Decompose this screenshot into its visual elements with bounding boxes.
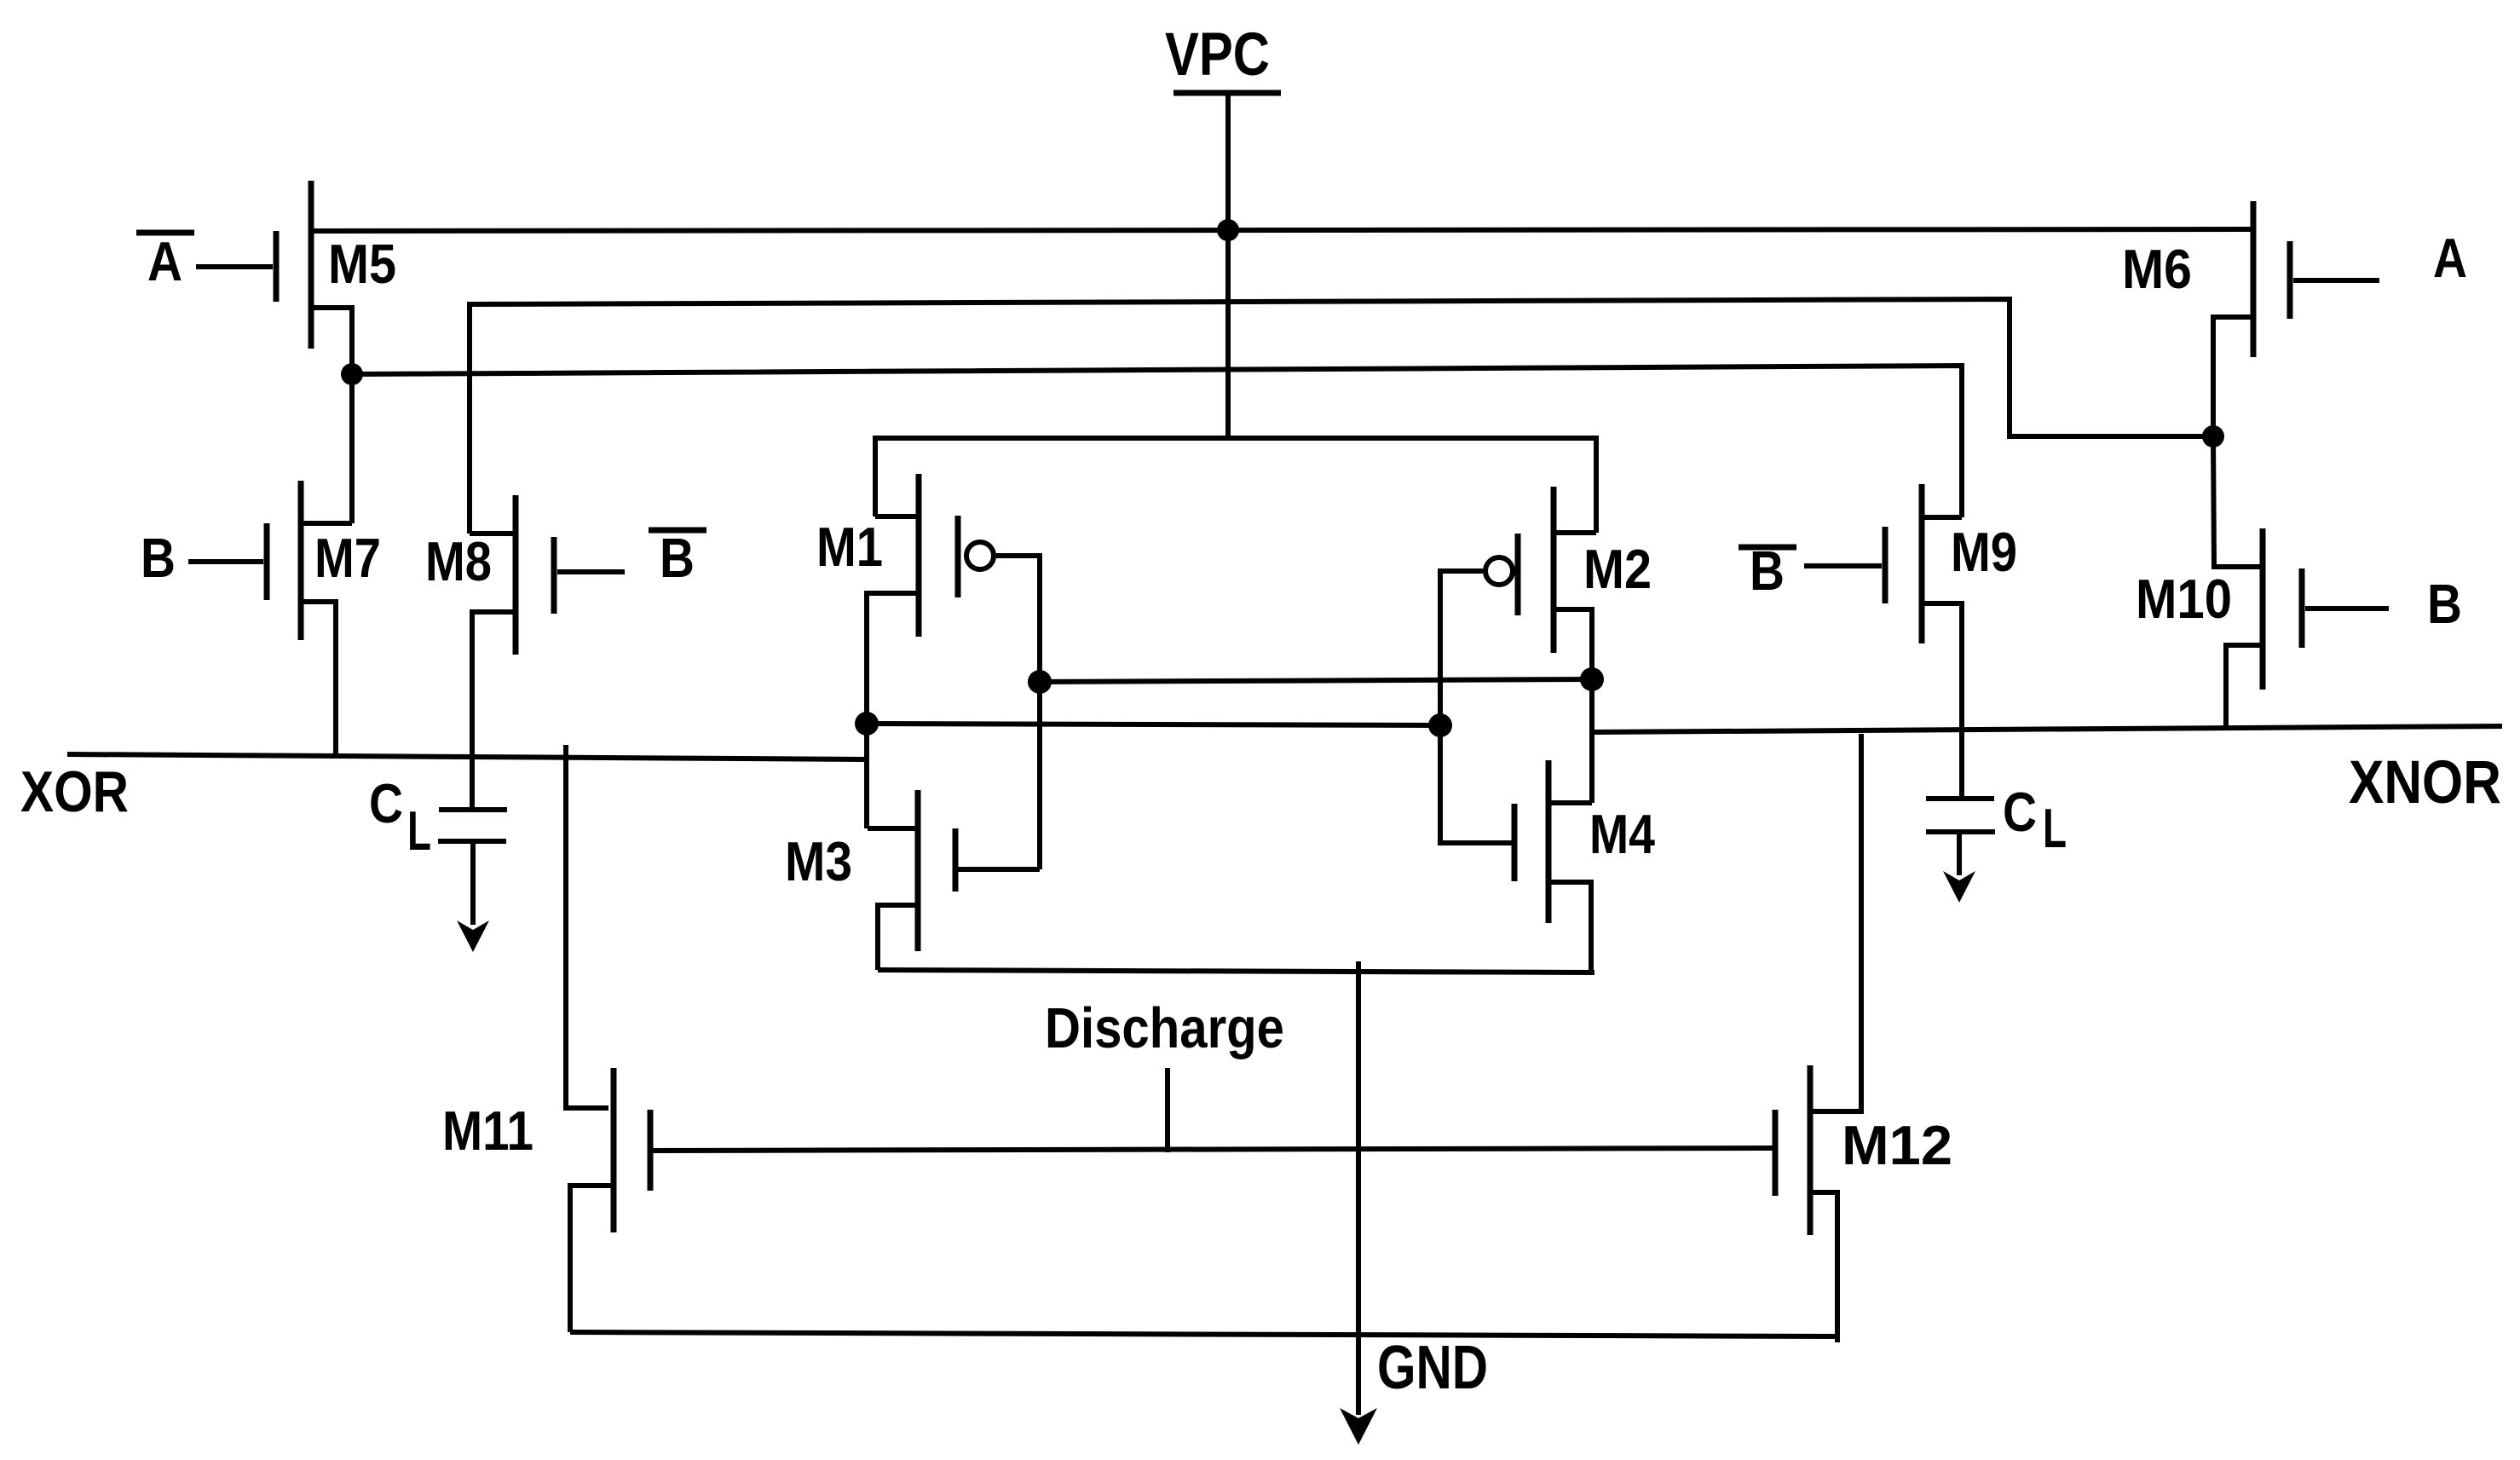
wire M4 source to box bottom bbox=[1548, 882, 1591, 972]
svg-text:XNOR: XNOR bbox=[2349, 749, 2501, 817]
svg-text:M7: M7 bbox=[314, 527, 381, 589]
wire M12 source to GND rail bbox=[1810, 1192, 1837, 1342]
transistor M9 gate bar bbox=[1883, 527, 1889, 603]
transistor M10 channel bar bbox=[2260, 528, 2266, 690]
wire M9 source down through XNOR rail to CL bbox=[1922, 603, 1962, 799]
wire latch box top rail bbox=[875, 438, 1596, 533]
transistor M1 gate bubble bbox=[966, 542, 994, 569]
wire M7 drain tap up to M5 source bbox=[301, 521, 352, 526]
transistor M6 gate bar bbox=[2287, 241, 2293, 319]
wire M6 gate lead bbox=[2293, 278, 2379, 283]
junction M1 source / cross wire dot bbox=[855, 712, 879, 736]
junction M1 gate / M2 source cross wire dot bbox=[1028, 670, 1052, 694]
transistor M11 gate bar bbox=[648, 1110, 654, 1191]
transistor M5 gate bar bbox=[274, 231, 280, 302]
svg-text:B: B bbox=[141, 527, 176, 589]
wire M7 gate lead bbox=[188, 559, 263, 564]
junction M2 source / M4 drain dot bbox=[1580, 667, 1604, 691]
transistor M12 channel bar bbox=[1808, 1065, 1814, 1235]
wire GND vertical bbox=[1356, 961, 1361, 1415]
svg-text:M11: M11 bbox=[442, 1099, 533, 1162]
ground arrow (left CL) bbox=[457, 920, 489, 952]
wire M5 source tap bbox=[311, 308, 352, 523]
wire XNOR output rail bbox=[1594, 726, 2502, 732]
transistor M3 gate bar bbox=[953, 828, 959, 892]
junction M6 source / M10 drain dot bbox=[2202, 425, 2224, 447]
junction VPC rail dot bbox=[1217, 219, 1239, 241]
transistor M2 gate bar bbox=[1515, 534, 1521, 615]
svg-text:A: A bbox=[147, 230, 182, 292]
svg-text:M1: M1 bbox=[816, 516, 883, 578]
wire XOR output rail bbox=[67, 754, 868, 759]
junction M5 source dot bbox=[341, 363, 363, 385]
wire CL (right) lower lead bbox=[1957, 832, 1962, 875]
wire M10 gate lead bbox=[2305, 606, 2389, 611]
wire M8 drain tap bbox=[470, 531, 516, 536]
wire M11 source to GND rail bbox=[570, 1186, 614, 1332]
transistor M9 channel bar bbox=[1919, 484, 1925, 643]
wire cross-couple A (M1 gate to M2 source node) bbox=[1040, 679, 1592, 682]
transistor M7 channel bar bbox=[298, 481, 304, 640]
transistor M12 gate bar bbox=[1773, 1110, 1779, 1196]
ground arrow (right CL) bbox=[1943, 871, 1975, 903]
wire M5 gate lead bbox=[196, 264, 273, 269]
wire M4 drain tap bbox=[1548, 800, 1592, 805]
transistor M7 gate bar bbox=[264, 523, 270, 600]
svg-text:L: L bbox=[2043, 797, 2067, 859]
wire M10 source to XNOR rail bbox=[2226, 645, 2263, 730]
wire M2 drain tap bbox=[1554, 530, 1596, 535]
svg-text:C: C bbox=[369, 772, 403, 834]
transistor M6 channel bar bbox=[2251, 201, 2257, 357]
svg-text:B: B bbox=[660, 527, 695, 589]
wire M1 drain tap bbox=[875, 514, 919, 519]
capacitor CL (right) top plate bbox=[1926, 796, 1994, 801]
transistor M4 gate bar bbox=[1512, 804, 1518, 881]
wire M7 source down to XOR rail bbox=[301, 602, 336, 758]
wire M1 source tap bbox=[867, 593, 919, 828]
svg-text:VPC: VPC bbox=[1165, 21, 1270, 89]
wire CL (left) lower lead bbox=[470, 841, 476, 925]
wire M2 source tap down to M4 drain bbox=[1554, 609, 1592, 803]
svg-text:A: A bbox=[2433, 227, 2467, 289]
transistor M4 channel bar bbox=[1546, 760, 1552, 923]
wire M3 source to box bottom bbox=[878, 905, 918, 970]
transistor M11 channel bar bbox=[611, 1068, 617, 1232]
svg-text:M8: M8 bbox=[425, 530, 492, 592]
capacitor CL (right) bottom plate bbox=[1926, 829, 1995, 834]
svg-text:L: L bbox=[407, 799, 431, 862]
transistor M1 gate bar bbox=[955, 516, 961, 597]
svg-text:M4: M4 bbox=[1589, 803, 1655, 865]
svg-text:B: B bbox=[2427, 573, 2462, 635]
wire latch box bottom rail bbox=[878, 970, 1594, 972]
wire cross-couple B (M1 source to M2 gate node) bbox=[867, 724, 1440, 725]
wire M3 gate connector bbox=[955, 867, 1040, 872]
wire M10 drain tap bbox=[2213, 436, 2263, 567]
wire VPC top rail M5 to M6 bbox=[311, 229, 2253, 231]
wire M1 gate to cross node bbox=[996, 556, 1040, 869]
wire M5 source to M9 drain bbox=[352, 366, 1962, 517]
junction M2 gate / cross wire dot bbox=[1428, 713, 1452, 737]
svg-text:M6: M6 bbox=[2122, 238, 2192, 300]
wire M8 source down to load cap CL bbox=[472, 612, 516, 810]
transistor M3 channel bar bbox=[915, 790, 921, 951]
wire M2 gate to cross node and M4 gate bbox=[1440, 571, 1514, 843]
wire M11 drain tap bbox=[566, 1105, 608, 1111]
transistor M10 gate bar bbox=[2299, 568, 2305, 648]
svg-text:M2: M2 bbox=[1583, 538, 1652, 600]
svg-text:M12: M12 bbox=[1842, 1114, 1952, 1176]
svg-text:M9: M9 bbox=[1951, 521, 2017, 583]
transistor M2 gate bubble bbox=[1485, 557, 1513, 585]
ground arrow (GND) bbox=[1340, 1408, 1377, 1445]
wire VPC vertical down to latch box bbox=[1225, 93, 1231, 438]
wire M3 drain tap bbox=[868, 826, 918, 831]
wire M9 drain tap bbox=[1922, 515, 1962, 520]
capacitor CL (left) top plate bbox=[439, 807, 507, 812]
wire M6 source tap down to node bbox=[2213, 317, 2253, 436]
wire GND rail bbox=[570, 1332, 1837, 1336]
svg-text:Discharge: Discharge bbox=[1045, 996, 1284, 1060]
transistor M8 channel bar bbox=[513, 495, 519, 655]
wire XNOR rail down to M12 drain bbox=[1811, 734, 1861, 1111]
wire M8 drain to M6 source (crossover net) bbox=[470, 299, 2213, 534]
capacitor CL (left) bottom plate bbox=[438, 839, 506, 844]
wire XOR rail down to M11 drain bbox=[566, 745, 608, 1108]
VPC terminal bar bbox=[1174, 90, 1281, 96]
svg-text:GND: GND bbox=[1377, 1334, 1488, 1402]
wire Discharge stub bbox=[1165, 1068, 1170, 1152]
svg-text:M3: M3 bbox=[785, 830, 852, 892]
wire M9 gate lead bbox=[1804, 563, 1882, 568]
transistor M5 channel bar bbox=[309, 181, 314, 349]
wire M8 gate lead bbox=[557, 569, 625, 574]
transistor M1 channel bar bbox=[916, 474, 922, 637]
svg-text:XOR: XOR bbox=[20, 759, 129, 824]
svg-text:M5: M5 bbox=[328, 233, 396, 295]
wire M11-M12 gate rail bbox=[653, 1148, 1775, 1151]
svg-text:M10: M10 bbox=[2136, 568, 2232, 630]
svg-text:C: C bbox=[2003, 781, 2037, 843]
transistor M8 gate bar bbox=[551, 537, 557, 614]
transistor M2 channel bar bbox=[1551, 487, 1557, 653]
